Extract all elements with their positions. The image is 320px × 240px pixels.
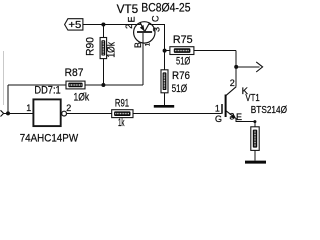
wire VT5 base down (142, 33, 144, 85)
svg-text:74AHC14PW: 74AHC14PW (20, 132, 79, 144)
svg-text:2: 2 (230, 78, 235, 88)
faint gray vertical line at left edge (3, 51, 5, 105)
node junction arrow tap (234, 65, 238, 69)
svg-text:R91: R91 (115, 97, 129, 109)
resistor R75 (170, 34, 194, 67)
svg-text:G: G (215, 114, 222, 124)
wire R75 right lead (194, 50, 236, 52)
svg-text:1: 1 (215, 104, 220, 114)
svg-text:DD7:1: DD7:1 (34, 84, 60, 96)
svg-text:1: 1 (144, 42, 151, 46)
resistor R76 (161, 70, 190, 95)
node dot at emitter corner (253, 120, 256, 123)
gate bar (221, 104, 223, 114)
wire R90 top lead (102, 25, 104, 38)
emitter arrow (230, 113, 235, 118)
svg-text:BTS214Ø: BTS214Ø (251, 105, 287, 116)
svg-text:51Ø: 51Ø (176, 56, 191, 68)
svg-text:+5: +5 (68, 19, 81, 31)
svg-text:E: E (126, 16, 136, 22)
svg-text:1Øk: 1Øk (74, 92, 90, 104)
emitter diagonal (226, 111, 235, 118)
svg-text:1: 1 (26, 103, 31, 113)
wire R76 bottom lead (164, 93, 166, 105)
wire +5 rail (83, 24, 140, 26)
wire VT5 collector to R75/R76 column (150, 25, 165, 70)
node junction input net (6, 111, 10, 115)
body bar (225, 95, 227, 118)
node junction R90/R87/base (101, 83, 105, 87)
svg-text:B: B (133, 42, 143, 48)
wire VT1 emitter to load resistor (236, 118, 255, 127)
collector diagonal (145, 23, 150, 32)
svg-text:VT5: VT5 (117, 2, 139, 16)
resistor R87 (65, 67, 90, 104)
wire to off-page arrow (236, 66, 259, 68)
wire R90 bottom lead (102, 59, 104, 85)
arrow head (256, 62, 262, 72)
wire R75 left lead (165, 50, 170, 52)
base bar (137, 31, 152, 33)
svg-text:2: 2 (66, 103, 71, 113)
transistor VT5 (PNP) (117, 0, 191, 48)
wire left branch down to input net (7, 85, 9, 113)
wire DD7 output to R91 (67, 112, 112, 114)
wire input net (4, 112, 33, 114)
power flag +5 (65, 19, 83, 32)
wire R75 row down to VT1 collector (235, 51, 237, 87)
emitter arrow (PNP, points to base bar) (140, 25, 145, 31)
svg-text:2: 2 (124, 24, 134, 29)
resistor R load (bottom right) (251, 127, 259, 151)
resistor R91 (112, 97, 133, 129)
transistor VT1 (IGBT) (215, 78, 287, 124)
node junction on +5 rail (101, 23, 105, 27)
svg-text:R90: R90 (84, 37, 96, 56)
svg-text:1k: 1k (118, 117, 125, 129)
node junction R75 (163, 49, 167, 53)
svg-text:C: C (151, 15, 161, 22)
ground G2 (245, 161, 266, 164)
svg-text:BC8Ø4-25: BC8Ø4-25 (141, 0, 190, 14)
svg-text:R76: R76 (172, 70, 190, 82)
inversion bubble DD7:1 output (62, 111, 67, 116)
svg-text:51Ø: 51Ø (172, 83, 188, 95)
wire load resistor bottom lead (254, 150, 256, 160)
svg-text:3: 3 (152, 27, 162, 32)
wire R91 to VT1 gate (133, 112, 221, 114)
wire base row (to VT5 base corner) (8, 84, 143, 86)
resistor R90 (84, 37, 117, 58)
net entry chevron left edge (1, 110, 4, 116)
collector diagonal (226, 87, 236, 96)
emitter lead stub (139, 23, 141, 25)
svg-text:R75: R75 (173, 34, 193, 46)
svg-text:E: E (236, 112, 242, 122)
ground G1 (154, 105, 174, 108)
svg-text:3: 3 (229, 112, 234, 122)
svg-text:R87: R87 (65, 67, 84, 79)
svg-text:1Øk: 1Øk (106, 42, 118, 58)
emitter diagonal (140, 23, 144, 32)
svg-text:VT1: VT1 (245, 93, 260, 104)
logic gate DD7:1 inverter box (20, 84, 79, 144)
